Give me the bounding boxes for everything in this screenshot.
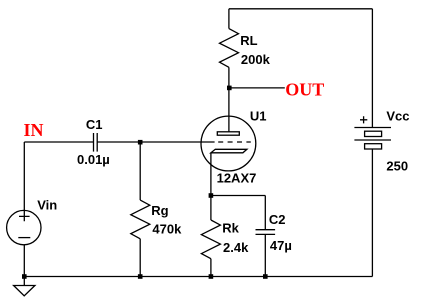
wire right rail lower (Vcc - to bottom) — [371, 149, 373, 277]
source Vin plus — [19, 211, 30, 222]
wire bottom rail — [24, 276, 372, 278]
capacitor C2 top plate — [256, 229, 276, 231]
svg-text:C2: C2 — [269, 212, 286, 227]
wire cathode lead down — [210, 153, 212, 196]
node junction cathode-Rk-C2 — [209, 193, 214, 198]
node junction Vin-ground — [22, 274, 27, 279]
wire C2 bottom lead — [264, 234, 266, 276]
svg-text:OUT: OUT — [285, 80, 324, 100]
capacitor C1 left plate — [93, 133, 95, 152]
svg-text:0.01µ: 0.01µ — [77, 152, 110, 167]
svg-text:470k: 470k — [152, 222, 182, 237]
source Vin circle — [7, 210, 41, 244]
battery Vcc cell box 1 — [365, 131, 382, 136]
svg-text:47µ: 47µ — [270, 238, 292, 253]
battery plus sign — [360, 116, 367, 123]
wire Vin bottom lead — [23, 245, 25, 286]
battery Vcc plate line mid — [354, 139, 391, 141]
wire OUT stub — [229, 87, 285, 89]
wire RL bottom to tube plate — [228, 67, 230, 132]
svg-text:IN: IN — [24, 120, 44, 140]
wire C1 to tube grid — [97, 141, 214, 143]
wire C2 top lead — [264, 196, 266, 230]
svg-text:Rg: Rg — [151, 203, 168, 218]
wire top rail — [229, 8, 373, 10]
node junction C1-Rg-grid — [138, 140, 143, 145]
node junction OUT tap — [227, 86, 232, 91]
capacitor C2 bottom plate — [256, 233, 276, 235]
svg-text:250: 250 — [386, 159, 408, 174]
wire IN node down to Vin — [23, 142, 25, 211]
battery Vcc cell box 2 — [365, 144, 382, 149]
tube U1 envelope circle — [201, 116, 256, 171]
node junction Rk-bottom — [209, 274, 214, 279]
svg-text:Vin: Vin — [37, 197, 57, 212]
wire Rg top lead — [139, 142, 141, 200]
svg-text:U1: U1 — [250, 109, 267, 124]
wire cathode node to C2 — [211, 195, 265, 197]
wire RL top lead — [228, 9, 230, 29]
capacitor C1 right plate — [96, 133, 98, 152]
resistor RL — [220, 29, 239, 68]
wire Rg bottom lead — [139, 239, 141, 277]
svg-text:RL: RL — [240, 33, 257, 48]
node junction Rg-bottom — [138, 274, 143, 279]
svg-text:C1: C1 — [86, 117, 103, 132]
resistor Rg — [131, 200, 150, 239]
source Vin minus — [18, 237, 30, 239]
node junction C2-bottom — [263, 274, 268, 279]
tube U1 grid (dashed) — [218, 141, 251, 143]
battery Vcc plate line top — [354, 127, 391, 129]
svg-text:2.4k: 2.4k — [223, 240, 249, 255]
svg-text:Vcc: Vcc — [386, 109, 409, 124]
resistor Rk — [201, 220, 220, 259]
wire IN horizontal to C1 — [24, 141, 93, 143]
svg-text:200k: 200k — [241, 52, 271, 67]
tube U1 plate bar — [217, 132, 239, 135]
svg-text:12AX7: 12AX7 — [217, 170, 257, 185]
tube U1 cathode — [211, 149, 247, 153]
svg-text:Rk: Rk — [222, 220, 239, 235]
wire Rk bottom lead — [210, 259, 212, 277]
ground symbol — [14, 286, 35, 296]
wire Rk top lead — [210, 196, 212, 221]
wire right rail upper (to Vcc +) — [371, 9, 373, 128]
